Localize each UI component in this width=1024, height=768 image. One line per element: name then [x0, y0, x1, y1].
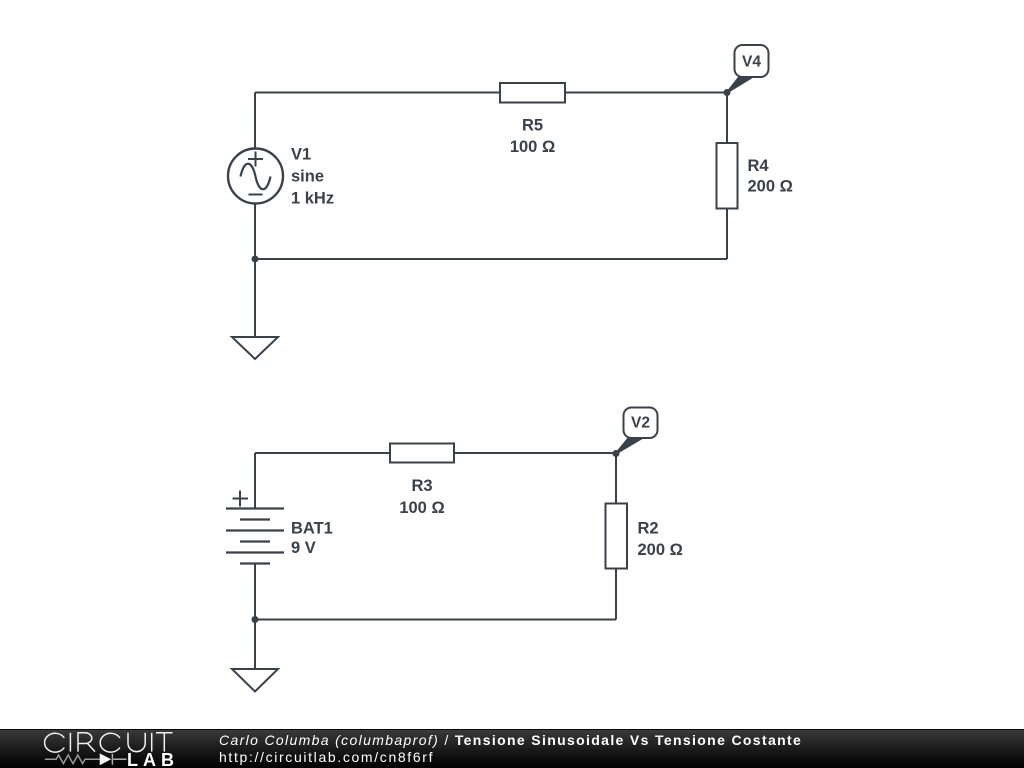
wire right vertical upper (node V2 to R2) — [615, 454, 617, 504]
label V1 sine 1 kHz — [291, 146, 334, 208]
label R3 100 Ohm — [399, 477, 444, 517]
ground (top circuit) — [232, 337, 278, 359]
svg-text:100 Ω: 100 Ω — [399, 499, 444, 517]
svg-text:R2: R2 — [638, 520, 659, 538]
wire right vertical lower (R2 to bottom rail) — [615, 569, 617, 620]
svg-text:V4: V4 — [742, 54, 761, 71]
wire bottom rail of top circuit — [255, 258, 727, 260]
junction node at V2 — [613, 450, 620, 457]
wire right vertical lower (R4 to bottom rail) — [726, 209, 728, 260]
CircuitLab logo — [0, 728, 200, 768]
ground (bottom circuit) — [232, 669, 278, 692]
footer attribution text — [219, 732, 802, 748]
svg-text:200 Ω: 200 Ω — [748, 178, 793, 196]
junction node at V4 — [724, 89, 731, 96]
resistor R3 — [390, 444, 454, 463]
svg-text:9 V: 9 V — [291, 539, 316, 557]
resistor R2 — [606, 504, 628, 569]
junction node bottom-left of bottom circuit — [252, 616, 259, 623]
wire top-left horizontal (BAT1 to R3) — [255, 452, 390, 454]
label BAT1 9 V — [291, 520, 333, 558]
svg-text:LAB: LAB — [127, 750, 179, 768]
voltage source V1 — [228, 149, 283, 204]
logo resistor zigzag glyph — [45, 754, 127, 765]
label R4 200 Ohm — [748, 157, 793, 196]
battery BAT1 — [226, 491, 284, 564]
footer bar — [0, 729, 1024, 768]
wire left vertical lower (BAT1 bottom to bottom rail) — [254, 564, 256, 620]
logo CIRCUIT wordmark — [45, 733, 173, 752]
node flag V4 — [727, 45, 769, 93]
svg-text:R5: R5 — [522, 117, 543, 135]
svg-text:BAT1: BAT1 — [291, 520, 333, 538]
wire bottom rail of bottom circuit — [255, 619, 616, 621]
wire right vertical upper (node V4 to R4) — [726, 93, 728, 144]
svg-text:200 Ω: 200 Ω — [638, 541, 683, 559]
svg-text:sine: sine — [291, 168, 324, 186]
label R2 200 Ohm — [638, 520, 683, 560]
wire ground stem of bottom circuit — [254, 620, 256, 670]
wire left vertical upper (to V1 top) — [254, 93, 256, 149]
wire ground stem of top circuit — [254, 259, 256, 337]
wire top-right horizontal (R3 to node V2) — [454, 452, 616, 454]
svg-text:100 Ω: 100 Ω — [510, 138, 555, 156]
junction node bottom-left of top circuit — [252, 256, 259, 263]
svg-text:1 kHz: 1 kHz — [291, 190, 334, 208]
resistor R5 — [500, 83, 565, 103]
resistor R4 — [717, 143, 738, 209]
logo diode glyph — [100, 753, 112, 765]
wire left vertical lower (V1 bottom to bottom rail) — [254, 204, 256, 260]
svg-text:R3: R3 — [411, 477, 432, 495]
svg-text:R4: R4 — [748, 157, 770, 175]
wire top-right horizontal (R5 to node V4) — [565, 92, 727, 94]
wire top-left horizontal (V1 to R5) — [255, 92, 500, 94]
svg-text:V1: V1 — [291, 146, 311, 164]
node flag V2 — [616, 408, 658, 454]
label R5 100 Ohm — [510, 117, 555, 157]
svg-text:V2: V2 — [631, 415, 650, 432]
wire left vertical upper (to BAT1 top) — [254, 453, 256, 509]
